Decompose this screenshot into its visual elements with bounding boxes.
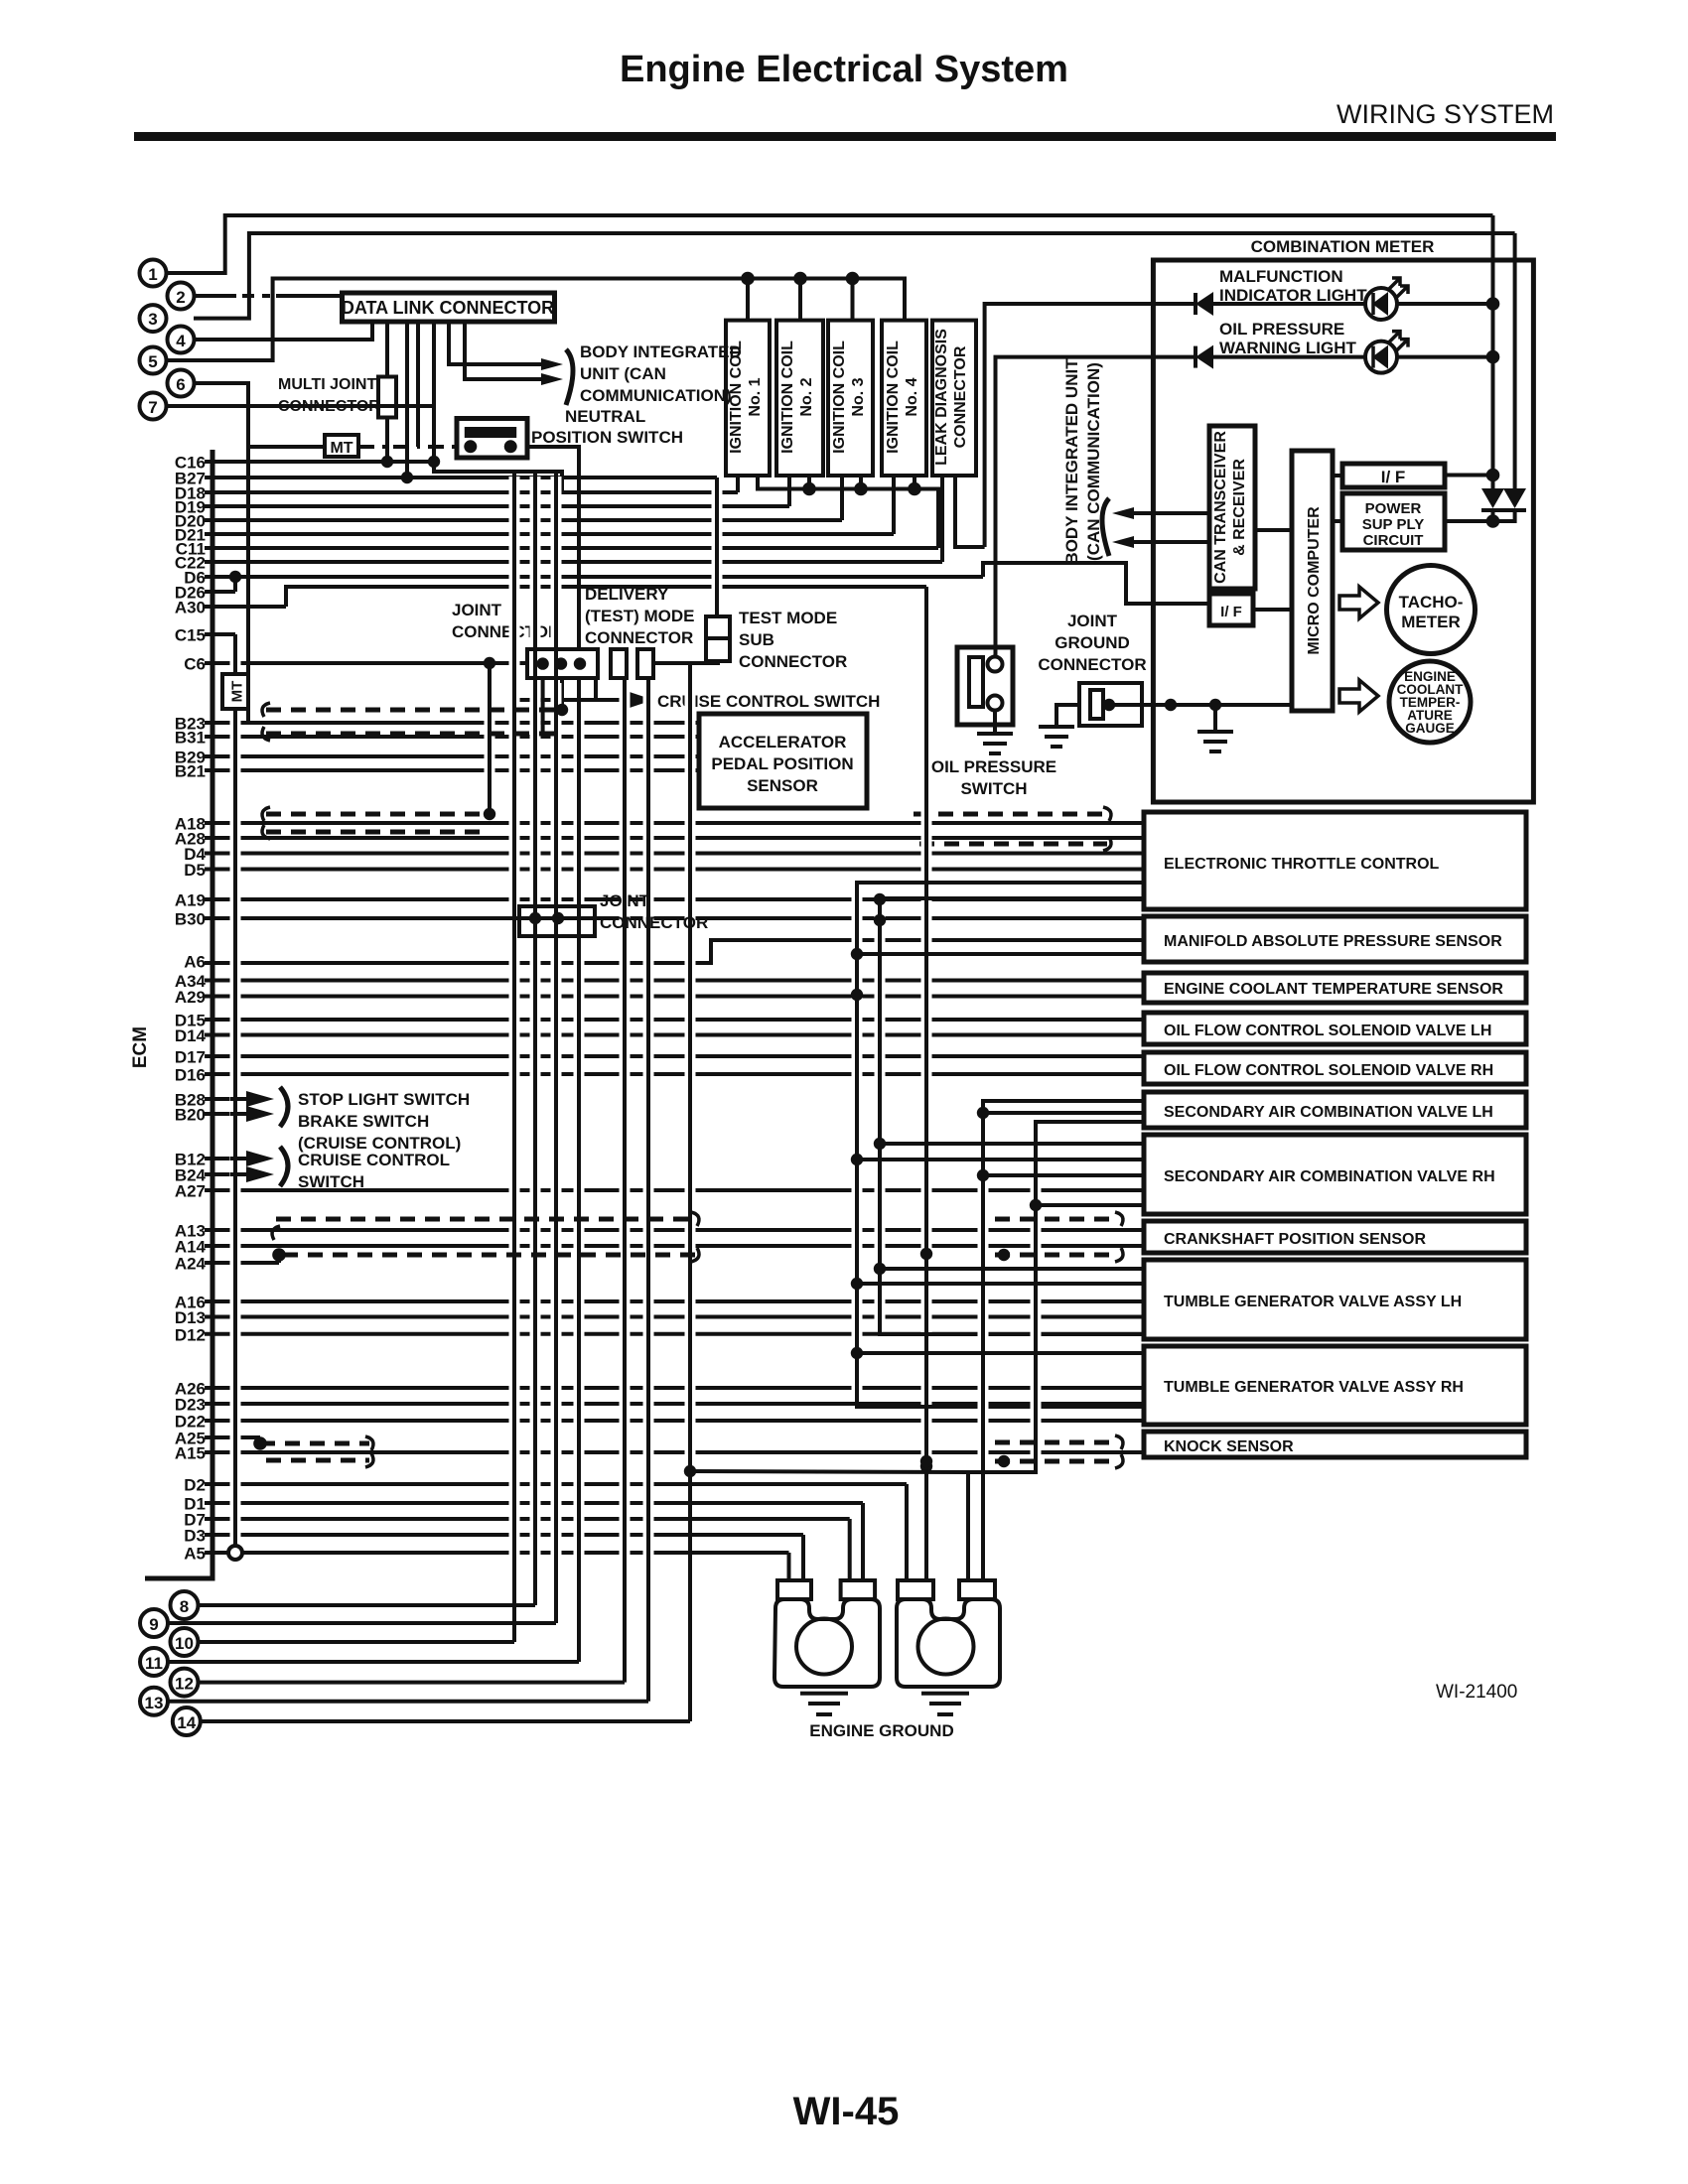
node circled 12 [171,1669,199,1697]
node circled 8 [171,1591,199,1619]
wire IF lower to micro computer [1253,608,1292,612]
wire row B27 [205,476,717,479]
wire DLC CAN low to BIU [465,322,541,379]
svg-text:I/ F: I/ F [1381,468,1406,486]
svg-text:SUP PLY: SUP PLY [1362,516,1425,533]
wire joint connector shield drain to B23 [560,678,564,710]
wire row B21 [205,768,699,772]
wire A30 step up drain line [286,587,926,607]
wire vertical to circled 13 [643,683,654,1696]
svg-text:MANIFOLD ABSOLUTE PRESSURE SEN: MANIFOLD ABSOLUTE PRESSURE SENSOR [1164,933,1502,950]
svg-text:13: 13 [145,1694,164,1712]
wire row A6 [205,940,1144,963]
symbol arrow to tachometer [1339,587,1378,618]
svg-text:WARNING LIGHT: WARNING LIGHT [1219,339,1356,357]
symbol arrow B12 cruise [246,1151,274,1166]
svg-text:C15: C15 [175,626,206,645]
svg-text:DATA LINK CONNECTOR: DATA LINK CONNECTOR [342,298,554,318]
ground joint ground connector [1056,705,1079,727]
box electronic throttle control [1144,812,1526,909]
connector DATA LINK CONNECTOR [343,293,555,322]
wire row D5 [205,868,1144,872]
svg-text:B30: B30 [175,910,206,929]
wire row D17 [205,1054,1144,1058]
wire row C22 [205,560,942,564]
svg-text:4: 4 [176,332,186,350]
svg-text:B31: B31 [175,729,206,748]
box I/F upper [1342,464,1445,487]
svg-text:POSITION SWITCH: POSITION SWITCH [531,428,683,447]
shield B23 dashed [266,708,562,713]
gauge tachometer [1387,566,1476,654]
node circled 11 [140,1648,168,1676]
wire row A14 [205,1244,1144,1248]
svg-text:No. 4: No. 4 [904,377,920,416]
wire row A29 [205,995,1144,999]
component ignition coil No.4 [882,321,926,476]
svg-text:WI-21400: WI-21400 [1436,1682,1517,1703]
wire row D19 [205,504,789,508]
wire row D23 [205,1402,1144,1406]
svg-text:CONNECTOR: CONNECTOR [739,652,847,671]
wire D7 drop [848,1519,852,1580]
wire row D15 [205,1018,1144,1022]
wire coil3 signal stub to D20 [840,476,844,520]
svg-text:A27: A27 [175,1182,206,1201]
connector delivery test mode [611,649,627,678]
wire joint connector to B31 [541,678,545,737]
svg-text:2: 2 [176,288,185,307]
svg-text:MT: MT [229,681,246,703]
wire row A25 [205,1435,260,1439]
svg-text:CONNECTOR: CONNECTOR [600,913,708,932]
svg-text:SECONDARY AIR COMBINATION VALV: SECONDARY AIR COMBINATION VALVE LH [1164,1104,1493,1121]
wire feed 961 [857,952,1144,956]
svg-text:No. 1: No. 1 [747,377,764,416]
box tumble generator valve assy RH [1144,1346,1526,1425]
wire bus vertical 886 [875,903,886,1329]
wire DLC stub to B27 [405,322,409,478]
box CAN transceiver and receiver [1209,426,1255,589]
svg-text:9: 9 [149,1615,158,1634]
wire cruise control switch line [514,678,596,700]
svg-text:I/ F: I/ F [1220,604,1242,620]
svg-text:12: 12 [175,1675,194,1694]
connector joint connector 1 [527,649,598,678]
component ignition coil No.2 [776,321,823,476]
symbol arrow B28 stop light [246,1091,274,1107]
shield A18 dashed right [914,812,1107,817]
svg-text:NEUTRAL: NEUTRAL [565,407,645,426]
wire top supply line 2 [194,233,1515,319]
wire circled 12 [199,1681,625,1685]
svg-text:MALFUNCTION: MALFUNCTION [1219,267,1343,286]
node circled 2 [168,283,195,310]
wire row A27 [205,1188,1144,1192]
wire row B23 [205,721,699,725]
svg-text:CIRCUIT: CIRCUIT [1363,532,1424,549]
svg-text:TUMBLE GENERATOR VALVE ASSY RH: TUMBLE GENERATOR VALVE ASSY RH [1164,1379,1464,1396]
shield crankshaft dashed left [276,1217,695,1222]
wire DLC CAN high to BIU [449,322,541,364]
wire row A19 [205,897,1144,901]
wire circled 11 [168,1660,579,1664]
wire leak diagnosis right stub to MIL drain [955,476,985,547]
wire C6 branch to A18 shield [485,668,495,809]
node bus junction dots [851,948,863,960]
wire vertical to circled 10 [509,477,520,901]
wire row D20 [205,518,842,522]
wire coil2 top stub [798,279,802,321]
wire CAN lines to meter [1132,511,1209,515]
wire DLC stub to C16 via multi joint connector [385,322,389,377]
wire row D7 [205,1517,850,1521]
svg-text:TEST MODE: TEST MODE [739,609,837,627]
svg-text:3: 3 [148,310,157,329]
node circled 4 [168,327,195,353]
symbol arrow B20 brake [246,1106,274,1122]
wire circle4 to DLC stub [194,323,372,340]
wire B27 drop to accelerator sensor [712,482,723,612]
wire feed 1278 [880,1267,1144,1271]
wire row D6 [205,575,983,579]
svg-text:D12: D12 [175,1325,206,1344]
box power supply circuit [1342,493,1445,550]
wire circled 14 [201,1719,690,1723]
svg-text:5: 5 [148,352,157,371]
gauge engine coolant temperature [1389,661,1471,743]
header rule [134,132,1556,141]
node circled 7 [140,393,167,420]
svg-text:MICRO COMPUTER: MICRO COMPUTER [1306,506,1323,655]
component ignition coil No.1 [726,321,770,476]
node circled 14 [173,1707,201,1735]
wire row B28 [205,1097,253,1101]
svg-text:CRUISE CONTROL: CRUISE CONTROL [298,1151,450,1169]
component ignition coil No.3 [828,321,873,476]
svg-text:BODY INTEGRATED: BODY INTEGRATED [580,342,742,361]
wire circle7 to vertical bus 539 [166,404,435,408]
sensor accelerator pedal position [699,714,867,808]
svg-text:TACHO-: TACHO- [1399,593,1464,612]
svg-text:ENGINE GROUND: ENGINE GROUND [809,1721,953,1740]
svg-text:ELECTRONIC THROTTLE CONTROL: ELECTRONIC THROTTLE CONTROL [1164,856,1440,873]
svg-text:A30: A30 [175,599,206,617]
shield crankshaft dashed right [995,1217,1119,1222]
wire row D14 [205,1033,1144,1037]
svg-text:OIL PRESSURE: OIL PRESSURE [1219,320,1344,339]
svg-text:STOP LIGHT SWITCH: STOP LIGHT SWITCH [298,1090,470,1109]
wire row A28 [205,836,1144,840]
wire supply vertical left [1491,215,1495,488]
wire MT link [248,445,325,449]
wire row C16 [205,460,434,464]
svg-text:ACCELERATOR: ACCELERATOR [719,733,847,751]
wire row D1 [205,1501,863,1505]
svg-text:IGNITION COIL: IGNITION COIL [885,341,902,454]
svg-text:B21: B21 [175,762,206,781]
connector multi joint [378,377,396,418]
svg-text:POWER: POWER [1365,500,1422,517]
svg-text:No. 2: No. 2 [798,377,815,416]
wire row A26 [205,1386,1144,1390]
svg-text:GAUGE: GAUGE [1405,721,1455,736]
box combination meter [1153,260,1533,802]
wire vertical to circled 8 [530,477,541,644]
node junction coil top bus [741,272,755,286]
wire row A13 [205,1228,1144,1232]
node circled 13 [140,1688,168,1715]
node circled 6 [168,370,195,397]
connector joint ground [1079,683,1142,726]
wire row D26 [205,590,235,594]
wire leak diagnosis left stub to C22 [940,476,944,562]
svg-text:D17: D17 [175,1048,206,1067]
svg-text:IGNITION COIL: IGNITION COIL [728,341,745,454]
svg-text:WI-45: WI-45 [793,2090,900,2133]
wire row B24 [205,1172,253,1176]
wire circled 13 [168,1700,648,1704]
svg-text:A6: A6 [184,953,206,972]
svg-text:JOINT: JOINT [452,601,502,619]
svg-text:SWITCH: SWITCH [960,779,1027,798]
svg-text:OIL FLOW CONTROL SOLENOID VALV: OIL FLOW CONTROL SOLENOID VALVE RH [1164,1062,1493,1079]
svg-text:IGNITION COIL: IGNITION COIL [831,341,848,454]
wire row C15 [205,632,235,636]
wire supply vertical right [1513,233,1517,488]
svg-text:UNIT (CAN: UNIT (CAN [580,364,666,383]
node DLC junction dots [381,456,393,468]
node circled 9 [140,1609,168,1637]
svg-text:GROUND: GROUND [1055,633,1130,652]
node A5 open terminal [228,1546,242,1560]
svg-text:D13: D13 [175,1308,206,1327]
wire feed 1152 [880,1142,1144,1146]
wire row A18 [205,821,1144,825]
wire coil1 top stub [746,279,750,321]
box knock sensor [1144,1432,1526,1457]
wire bus vertical 1043 [1031,1127,1042,1467]
wire row D16 [205,1072,1144,1076]
wire C15 to MT to A5 terminator [230,639,241,1545]
svg-text:A24: A24 [175,1255,207,1274]
wire row B30 [205,916,1144,920]
svg-text:B20: B20 [175,1106,206,1125]
shield A18 dashed left [266,812,490,817]
wire row A5 [205,1551,789,1555]
component MT box lower [222,674,248,709]
switch neutral position switch [457,419,527,459]
wire feed 1168 [857,1158,1144,1161]
svg-text:WIRING SYSTEM: WIRING SYSTEM [1336,99,1554,129]
shield knock dashed left [260,1441,369,1446]
box oil flow control solenoid valve LH [1144,1013,1526,1044]
svg-text:Engine Electrical System: Engine Electrical System [620,49,1068,90]
svg-text:C6: C6 [184,655,206,674]
wire row B29 [205,754,699,758]
wire D3 drop [801,1535,805,1580]
connector leak diagnosis [932,321,976,476]
wire coil1 signal stub to D18 [736,476,740,492]
wire row D22 [205,1419,1144,1423]
svg-text:D14: D14 [175,1026,207,1045]
svg-text:10: 10 [175,1634,194,1653]
svg-text:ENGINE COOLANT TEMPERATURE SEN: ENGINE COOLANT TEMPERATURE SENSOR [1164,981,1503,998]
wire vertical to circled 9 [551,477,562,644]
diode pair [1481,488,1504,508]
box tumble generator valve assy LH [1144,1260,1526,1339]
ECM body line [145,450,212,1578]
component MT box [325,435,358,457]
svg-text:CAN TRANSCEIVER: CAN TRANSCEIVER [1212,431,1229,584]
svg-text:D3: D3 [184,1527,206,1546]
box secondary air combination valve LH [1144,1092,1526,1128]
svg-text:(CAN COMMUNICATION): (CAN COMMUNICATION) [1084,362,1103,561]
wire row C11 [205,546,938,550]
wire row D2 [205,1482,907,1486]
svg-text:DELIVERY: DELIVERY [585,585,669,604]
wire row B31 [205,735,699,739]
wire circle6 to MT [243,388,254,718]
svg-text:CONNECTOR: CONNECTOR [452,622,560,641]
svg-text:COMMUNICATION): COMMUNICATION) [580,386,732,405]
wire row C6 [205,661,527,665]
wire row D3 [205,1533,803,1537]
svg-text:A15: A15 [175,1444,206,1463]
wire drain vertical 933 [921,592,932,1575]
box micro computer [1292,451,1333,711]
ground combination meter internal [1213,705,1217,732]
terminal engine ground right [897,1580,1000,1687]
wire top supply line 1 [166,215,1493,273]
wire circled 10 [199,1640,514,1644]
svg-text:A19: A19 [175,891,206,910]
wire D2 drop [905,1484,909,1580]
svg-text:7: 7 [148,398,157,417]
svg-text:PEDAL POSITION: PEDAL POSITION [711,754,853,773]
wire row B20 [205,1112,253,1116]
svg-text:CONNECTOR: CONNECTOR [1038,655,1146,674]
wire row A24 [205,1261,279,1265]
wire D26 elbow to D6 [233,577,237,592]
svg-text:SECONDARY AIR COMBINATION VALV: SECONDARY AIR COMBINATION VALVE RH [1164,1168,1495,1185]
svg-text:OIL FLOW CONTROL SOLENOID VALV: OIL FLOW CONTROL SOLENOID VALVE LH [1164,1023,1491,1039]
wire vertical to circled 14 [685,666,696,1466]
wire D1 drop [861,1503,865,1580]
svg-text:ECM: ECM [130,1026,151,1068]
wire vertical to circled 12 [620,683,631,1677]
box manifold absolute pressure sensor [1144,916,1526,962]
wire oil pressure warning feed [996,357,1196,664]
wire row A30 [205,605,286,609]
svg-text:D2: D2 [184,1476,206,1495]
wire coil2 signal stub to D19 [787,476,791,506]
svg-text:& RECEIVER: & RECEIVER [1231,459,1248,556]
wire feed 1363 [857,1351,1144,1355]
wire D6 to I/F staircase [983,563,1209,604]
box crankshaft position sensor [1144,1221,1526,1253]
svg-text:8: 8 [180,1597,189,1616]
wire joint connector to circled 11 [574,683,585,901]
svg-text:LEAK DIAGNOSIS: LEAK DIAGNOSIS [933,329,950,466]
svg-text:COMBINATION METER: COMBINATION METER [1251,237,1435,256]
wire neutral switch to joint connector [527,447,579,649]
wire micro computer to IF upper [1333,474,1342,478]
node circled 3 [140,305,167,332]
svg-text:CONNECTOR: CONNECTOR [952,345,969,448]
wire CAN to micro computer [1255,528,1292,532]
svg-text:A29: A29 [175,988,206,1007]
svg-text:IGNITION COIL: IGNITION COIL [779,341,796,454]
wire row D18 [205,490,738,494]
switch oil pressure [957,647,1013,725]
svg-text:TUMBLE GENERATOR VALVE ASSY LH: TUMBLE GENERATOR VALVE ASSY LH [1164,1294,1462,1310]
svg-text:SENSOR: SENSOR [747,776,818,795]
svg-text:CONNECTOR: CONNECTOR [278,398,380,415]
wire feed 1184 [983,1173,1144,1177]
wire joint ground bus [1109,703,1292,707]
wire feed 1121 [983,1111,1144,1115]
wire row A16 [205,1299,1144,1303]
box secondary air combination valve RH [1144,1135,1526,1214]
svg-text:SUB: SUB [739,630,774,649]
svg-text:MT: MT [330,440,352,457]
node circled 5 [140,347,167,374]
svg-text:MULTI JOINT: MULTI JOINT [278,376,376,393]
ground oil pressure switch [993,710,997,734]
wire coil bottom common bus [758,476,938,548]
wire DLC stub to C16 second [432,322,436,462]
svg-text:CONNECTOR: CONNECTOR [585,628,693,647]
symbol arrow to coolant gauge [1339,680,1378,712]
box engine coolant temperature sensor [1144,973,1526,1003]
symbol arrow B24 cruise [246,1166,274,1182]
wire micro computer to power supply [1333,519,1342,523]
node circled 10 [171,1628,199,1656]
wire engine ground feed 1482 [690,1471,968,1472]
svg-text:(TEST) MODE: (TEST) MODE [585,607,695,625]
svg-text:A5: A5 [184,1545,206,1564]
node circled 1 [140,260,167,287]
wire row D12 [205,1332,1144,1336]
svg-text:No. 3: No. 3 [850,377,867,416]
svg-text:BRAKE SWITCH: BRAKE SWITCH [298,1112,429,1131]
wire delivery to test mode sub [653,661,718,663]
wire row D13 [205,1315,1144,1319]
connector joint connector 2 [519,906,595,936]
svg-text:D16: D16 [175,1066,206,1085]
wire coil4 signal stub to D21 [892,476,896,534]
wire circled 9 [168,1621,556,1625]
box oil flow control solenoid valve RH [1144,1052,1526,1084]
svg-text:1: 1 [148,265,157,284]
ground engine ground right [921,1692,969,1696]
wire row D21 [205,532,894,536]
wire circled 8 [199,1603,535,1607]
wire row B12 [205,1157,253,1160]
wire row A34 [205,979,1144,983]
wire coil3 top stub [851,279,855,321]
wire A5 drop [787,1553,791,1580]
wire bus vertical 863 [852,887,863,1402]
svg-text:KNOCK SENSOR: KNOCK SENSOR [1164,1438,1294,1455]
svg-text:JOINT: JOINT [600,891,650,910]
svg-text:D5: D5 [184,861,206,880]
wire circle2 to DLC (dashed segment) [194,294,236,298]
svg-text:14: 14 [177,1713,196,1732]
box I/F lower [1209,594,1253,625]
svg-text:BODY INTEGRATED UNIT: BODY INTEGRATED UNIT [1062,358,1081,565]
